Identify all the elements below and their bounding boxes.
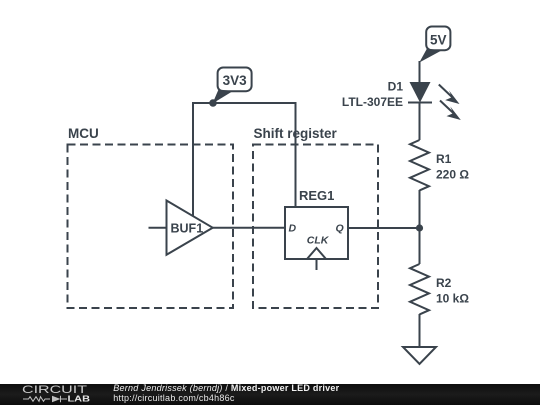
svg-text:3V3: 3V3 xyxy=(223,73,248,88)
svg-text:R2: R2 xyxy=(436,276,452,290)
svg-text:5V: 5V xyxy=(430,33,447,48)
svg-text:CLK: CLK xyxy=(307,235,330,247)
svg-text:10 kΩ: 10 kΩ xyxy=(436,292,469,306)
svg-text:REG1: REG1 xyxy=(299,188,334,203)
svg-text:D1: D1 xyxy=(388,80,404,94)
svg-text:http://circuitlab.com/cb4h86c: http://circuitlab.com/cb4h86c xyxy=(113,393,235,403)
svg-text:D: D xyxy=(289,223,297,235)
svg-text:LAB: LAB xyxy=(68,393,91,403)
svg-text:Q: Q xyxy=(336,223,344,235)
svg-text:LTL-307EE: LTL-307EE xyxy=(342,95,403,109)
svg-text:220 Ω: 220 Ω xyxy=(436,168,469,182)
svg-text:R1: R1 xyxy=(436,152,452,166)
svg-text:BUF1: BUF1 xyxy=(171,221,204,235)
svg-text:Bernd Jendrissek (berndj) / Mi: Bernd Jendrissek (berndj) / Mixed-power … xyxy=(113,384,339,393)
svg-text:MCU: MCU xyxy=(68,126,99,141)
svg-text:Shift register: Shift register xyxy=(254,126,338,141)
